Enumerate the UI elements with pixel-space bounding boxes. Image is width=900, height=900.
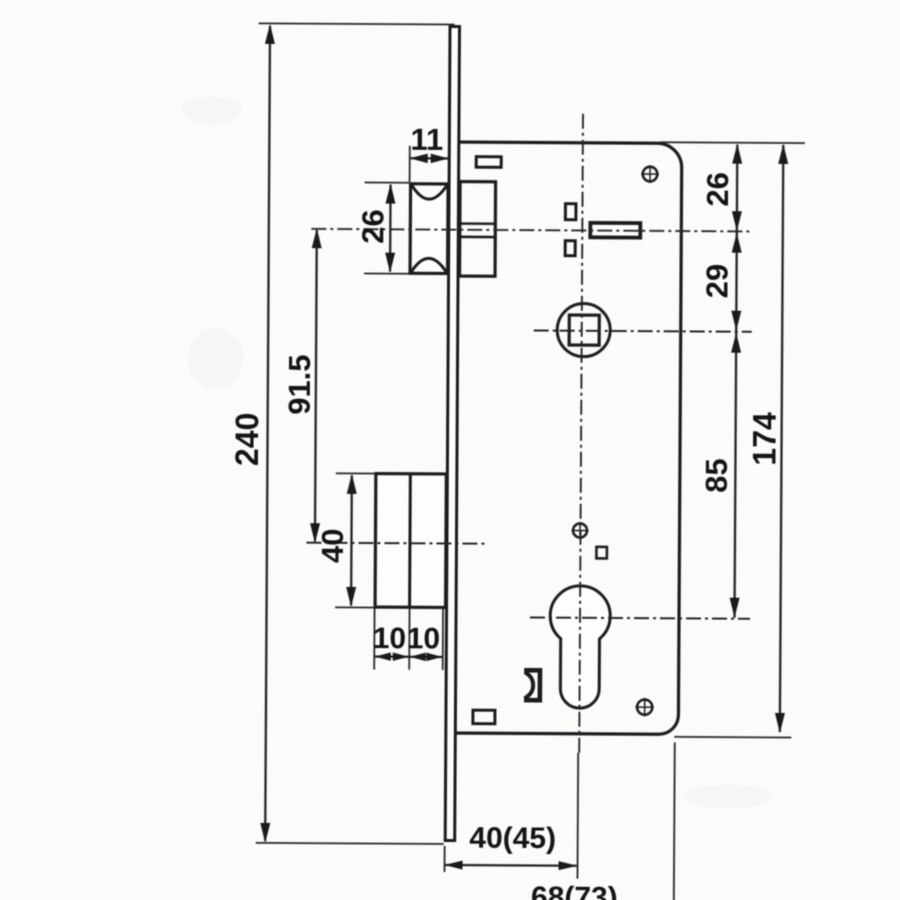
svg-text:68(73): 68(73) (531, 881, 618, 900)
spindle follower circle (557, 303, 610, 356)
extension lines 10 10 (373, 609, 375, 670)
extension cylinder axis bottom (576, 753, 579, 879)
screw hole top right (641, 165, 659, 183)
dim line 240 (265, 26, 270, 841)
retainer clip (524, 670, 540, 700)
arrows 91.5 (312, 228, 322, 248)
svg-text:40(45): 40(45) (469, 822, 556, 856)
arrows 174 (778, 144, 788, 164)
upper small square hole (565, 204, 576, 220)
extension bottom right for 174 (674, 736, 791, 739)
small square hole near cylinder (596, 547, 607, 559)
arrows 26 right (732, 144, 742, 164)
latch bolt head (410, 184, 448, 274)
arrows 10 10 (375, 652, 391, 660)
svg-text:40: 40 (315, 528, 350, 563)
svg-text:29: 29 (699, 264, 734, 299)
svg-text:91.5: 91.5 (282, 354, 317, 415)
extension 40(45) left (443, 846, 445, 872)
cylinder centreline (530, 617, 750, 618)
dim line 40(45) (446, 864, 577, 867)
latch bolt body (460, 182, 496, 277)
svg-text:85: 85 (699, 458, 734, 493)
svg-text:240: 240 (229, 412, 265, 466)
extension top right for 26 174 (660, 141, 805, 144)
dim line 11 (411, 157, 448, 160)
lower small square hole (565, 241, 575, 256)
svg-text:11: 11 (410, 122, 443, 157)
arrows 40 (347, 474, 357, 494)
dim line 10 10 (375, 655, 442, 658)
extension lines 40 (336, 472, 375, 474)
extension line 11 (409, 146, 411, 182)
screw hole bottom right (635, 698, 654, 717)
arrows 40(45) (445, 860, 463, 869)
arrows 26 left (385, 184, 395, 204)
arrows 240 (265, 24, 275, 44)
dim line 26 left (389, 185, 392, 272)
svg-text:10: 10 (407, 622, 441, 655)
dim line 91.5 (315, 230, 317, 541)
dim line 26 29 85 right (735, 145, 738, 618)
horizontal slot (590, 223, 640, 238)
svg-text:26: 26 (355, 209, 390, 244)
top mounting slot (476, 157, 501, 168)
svg-text:26: 26 (700, 172, 735, 207)
arrows 11 (410, 154, 428, 164)
dim line 40 (350, 475, 353, 605)
bottom mounting slot (473, 710, 495, 724)
faint scan smudges (178, 96, 777, 809)
euro cylinder hole (550, 586, 611, 709)
extension 68(73) right (673, 742, 676, 900)
screw hole centre (571, 522, 588, 539)
extension bottom for 240 (256, 843, 444, 844)
vertical centreline (579, 114, 583, 753)
faceplate (445, 26, 459, 840)
deadbolt centreline (306, 543, 487, 544)
extension top for 240 (259, 23, 455, 24)
latch centreline (311, 229, 749, 232)
deadbolt (375, 474, 446, 608)
lock body outline (456, 142, 682, 734)
spindle square hole (569, 315, 599, 345)
arrows 29 (732, 233, 742, 253)
svg-text:10: 10 (373, 622, 407, 655)
dim line 174 (780, 145, 783, 732)
arrows 85 (731, 333, 741, 353)
svg-text:174: 174 (746, 412, 782, 466)
spindle centreline (534, 330, 752, 331)
extension lines 26 left (365, 181, 410, 183)
